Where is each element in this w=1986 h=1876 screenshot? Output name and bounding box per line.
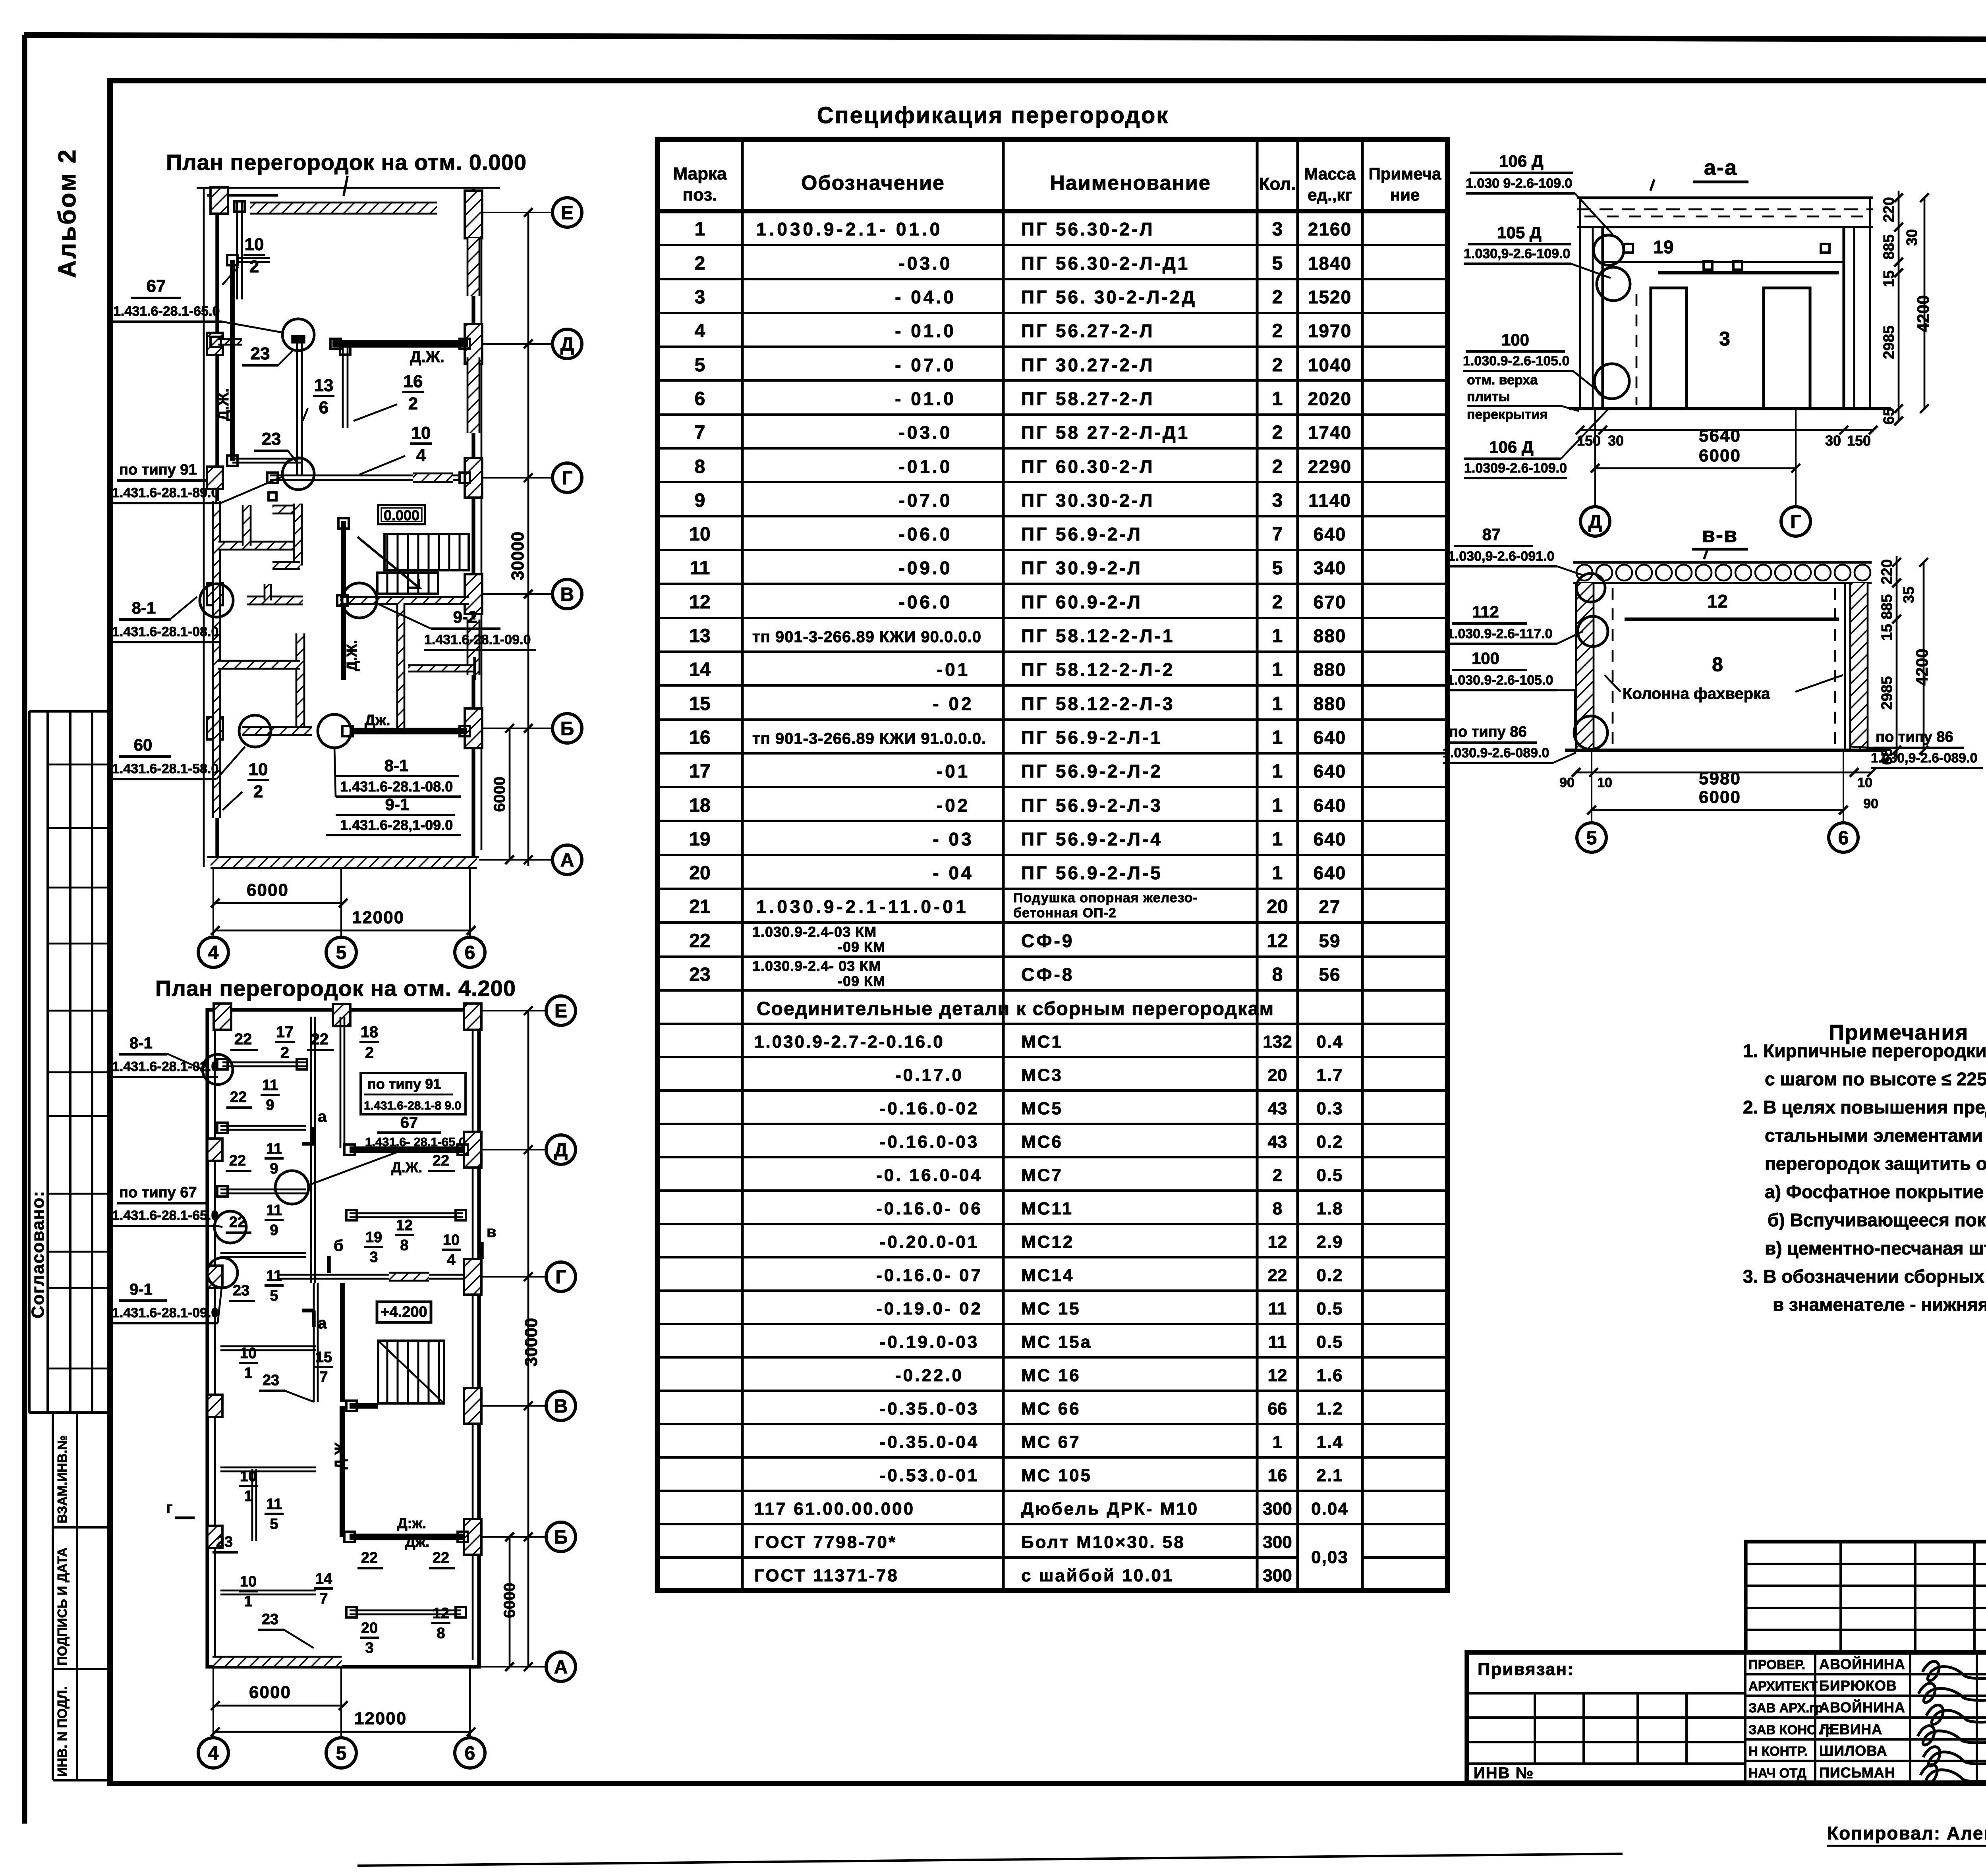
plan1 cluster jog (272, 562, 300, 569)
svg-text:плиты: плиты (1467, 389, 1510, 404)
svg-text:Подушка опорная железо-: Подушка опорная железо- (1013, 890, 1198, 905)
bottom partial line (357, 1854, 1623, 1866)
plan1 partition x603 (236, 201, 238, 299)
svg-text:1: 1 (1272, 761, 1283, 782)
plan1 cluster wall h3 (247, 596, 303, 604)
svg-text:Г: Г (1790, 511, 1801, 533)
svg-text:-06.0: -06.0 (899, 524, 952, 544)
svg-text:1.030,9-2.6-089.0: 1.030,9-2.6-089.0 (1871, 751, 1977, 766)
svg-text:В: В (554, 1396, 568, 1417)
svg-text:СФ-8: СФ-8 (1021, 964, 1074, 985)
svg-text:ПГ 56. 30-2-Л-2Д: ПГ 56. 30-2-Л-2Д (1021, 287, 1197, 307)
svg-text:1.2: 1.2 (1316, 1399, 1343, 1419)
svg-text:7: 7 (319, 1369, 328, 1386)
svg-text:20: 20 (361, 1620, 378, 1637)
svg-text:67: 67 (147, 276, 166, 296)
svg-text:по типу 86: по типу 86 (1449, 724, 1527, 740)
svg-text:9: 9 (695, 490, 705, 511)
svg-text:тп 901-3-266.89 КЖИ 91.0.0.0.: тп 901-3-266.89 КЖИ 91.0.0.0. (752, 730, 986, 747)
svg-text:ПГ 56.30-2-Л-Д1: ПГ 56.30-2-Л-Д1 (1021, 253, 1190, 274)
svg-text:1520: 1520 (1308, 287, 1352, 307)
plan2 left rooms lower (220, 1345, 316, 1347)
plan1 stair-left dark partition (341, 521, 346, 680)
plan1 right vertical dim 30000 (527, 212, 529, 866)
svg-text:9-2: 9-2 (453, 608, 477, 626)
plan2 leader circles (203, 1054, 233, 1085)
svg-text:перекрытия: перекрытия (1467, 407, 1547, 422)
svg-text:Б: Б (554, 1527, 568, 1548)
svg-text:1.431.6-28,1-09.0: 1.431.6-28,1-09.0 (340, 817, 453, 833)
svg-text:65: 65 (1881, 408, 1897, 425)
svg-text:-0.19.0- 02: -0.19.0- 02 (876, 1299, 983, 1318)
svg-text:640: 640 (1314, 795, 1347, 816)
svg-text:-0.16.0- 07: -0.16.0- 07 (876, 1266, 983, 1285)
svg-text:1: 1 (1272, 829, 1283, 850)
svg-text:ПРОВЕР.: ПРОВЕР. (1748, 1657, 1805, 1672)
svg-text:1.030.9-2.6-105.0: 1.030.9-2.6-105.0 (1447, 673, 1553, 688)
plan2 partition below D (350, 1212, 463, 1214)
svg-text:5980: 5980 (1699, 769, 1741, 788)
section a-a right wall (1842, 227, 1845, 409)
svg-text:Н КОНТР.: Н КОНТР. (1748, 1744, 1808, 1758)
svg-text:Наименование: Наименование (1050, 172, 1211, 195)
svg-text:1.030 9-2.6-109.0: 1.030 9-2.6-109.0 (1466, 176, 1572, 191)
plan1 top wall hatch strip (250, 203, 437, 214)
svg-text:МС 105: МС 105 (1021, 1466, 1092, 1485)
svg-text:ПГ 30.27-2-Л: ПГ 30.27-2-Л (1021, 355, 1155, 375)
svg-text:2.9: 2.9 (1316, 1232, 1343, 1252)
svg-text:7: 7 (1272, 524, 1283, 545)
svg-text:12: 12 (433, 1605, 449, 1622)
svg-text:1.8: 1.8 (1316, 1199, 1343, 1218)
plan1 bottom dim 12000 (215, 930, 471, 932)
svg-text:15: 15 (315, 1349, 332, 1366)
svg-text:-0.19.0-03: -0.19.0-03 (880, 1332, 979, 1352)
svg-text:2: 2 (1272, 320, 1283, 342)
svg-text:Дж.: Дж. (405, 1534, 429, 1550)
section a-a inner top line (1658, 271, 1839, 274)
plan1 corridor wall below stair hatched (397, 603, 404, 731)
svg-text:100: 100 (1472, 649, 1499, 668)
svg-text:МС 15: МС 15 (1021, 1299, 1081, 1318)
svg-text:2: 2 (1272, 287, 1283, 308)
svg-text:300: 300 (1263, 1499, 1292, 1519)
svg-text:ПГ 56.30-2-Л: ПГ 56.30-2-Л (1021, 219, 1155, 239)
section a-a axis circles (1594, 409, 1596, 507)
svg-text:3: 3 (1272, 219, 1283, 240)
svg-text:12: 12 (396, 1217, 413, 1234)
svg-text:6000: 6000 (491, 777, 508, 812)
svg-text:23: 23 (233, 1282, 249, 1299)
svg-text:-09 КМ: -09 КМ (838, 939, 885, 955)
plan1 right wall (471, 189, 475, 867)
svg-text:5: 5 (695, 355, 705, 376)
svg-text:отм. верха: отм. верха (1467, 372, 1538, 388)
svg-text:3: 3 (1272, 490, 1283, 511)
svg-text:ПГ 56.27-2-Л: ПГ 56.27-2-Л (1021, 320, 1155, 341)
svg-text:0.5: 0.5 (1316, 1166, 1343, 1185)
svg-text:Колонна фахверка: Колонна фахверка (1623, 685, 1770, 703)
svg-text:МС3: МС3 (1021, 1065, 1063, 1085)
svg-text:в: в (487, 1223, 496, 1241)
svg-text:1740: 1740 (1308, 422, 1352, 443)
inventory margin table (52, 1413, 54, 1780)
svg-text:5: 5 (1586, 828, 1597, 849)
svg-text:0.4: 0.4 (1316, 1032, 1343, 1052)
plan2 vertical partition x795 mid (313, 1283, 315, 1402)
svg-text:-0.22.0: -0.22.0 (895, 1366, 964, 1385)
spec table column lines (741, 139, 744, 1590)
svg-text:Масса: Масса (1304, 164, 1356, 183)
svg-text:0.5: 0.5 (1316, 1332, 1343, 1352)
svg-text:5: 5 (270, 1516, 278, 1532)
svg-text:340: 340 (1314, 558, 1347, 578)
svg-text:1.431.6-28.1-09.0: 1.431.6-28.1-09.0 (424, 632, 531, 647)
plan2 vertical corridor wall left (310, 1017, 312, 1283)
svg-text:11: 11 (266, 1496, 282, 1513)
svg-text:-0. 16.0-04: -0. 16.0-04 (876, 1166, 983, 1185)
sheet outer border top (24, 35, 1986, 41)
svg-text:с шайбой 10.01: с шайбой 10.01 (1021, 1566, 1174, 1585)
svg-text:План перегородок на отм. 4.200: План перегородок на отм. 4.200 (155, 976, 516, 1001)
svg-text:885: 885 (1881, 234, 1897, 259)
svg-text:-0.16.0- 06: -0.16.0- 06 (876, 1199, 983, 1218)
svg-text:Д.Ж.: Д.Ж. (215, 388, 232, 421)
svg-text:2: 2 (1273, 1166, 1282, 1185)
plan2 partition mid x860 (340, 1017, 342, 1148)
plan2 axis row lines (479, 1010, 546, 1011)
plan1 cluster wall h5 at B row (242, 727, 312, 735)
svg-text:БИРЮКОВ: БИРЮКОВ (1819, 1677, 1897, 1694)
svg-text:10: 10 (249, 760, 268, 779)
section v-v axis circles (1591, 750, 1592, 823)
svg-text:Е: Е (561, 203, 574, 224)
plan2 four.200 box (377, 1302, 431, 1322)
svg-text:12: 12 (1268, 1232, 1287, 1252)
approval table (28, 711, 31, 1413)
svg-text:9-1: 9-1 (385, 795, 410, 814)
signatures (1922, 1662, 1986, 1681)
plan2 row B wall dark (350, 1534, 463, 1540)
svg-text:67: 67 (400, 1114, 418, 1131)
svg-text:4200: 4200 (1914, 295, 1932, 332)
svg-text:бетонная ОП-2: бетонная ОП-2 (1013, 905, 1117, 921)
svg-text:150: 150 (1577, 432, 1601, 449)
svg-text:10: 10 (689, 524, 710, 545)
plan2 side columns (207, 1139, 222, 1161)
svg-text:в) цементно-песчаная штукатур: в) цементно-песчаная штукатурка толщиной… (1765, 1238, 1986, 1258)
svg-text:-0.35.0-04: -0.35.0-04 (880, 1432, 979, 1452)
svg-text:Марка: Марка (673, 164, 727, 183)
svg-text:8: 8 (1712, 653, 1723, 676)
svg-text:стальными элементами с 0,25 д: стальными элементами с 0,25 до 0.75 часа… (1765, 1125, 1986, 1146)
svg-text:-03.0: -03.0 (899, 422, 952, 443)
svg-text:60: 60 (134, 735, 153, 754)
svg-text:13: 13 (314, 376, 334, 395)
plan1 bottom dim 6000 (215, 902, 343, 904)
svg-text:16: 16 (689, 727, 710, 748)
svg-text:12: 12 (689, 592, 710, 613)
svg-text:ПИСЬМАН: ПИСЬМАН (1819, 1764, 1895, 1781)
svg-text:г: г (166, 1499, 173, 1517)
svg-text:1.030,9-2.6-109.0: 1.030,9-2.6-109.0 (1464, 246, 1570, 261)
svg-text:30000: 30000 (522, 1318, 541, 1366)
spec table frame (657, 139, 1447, 1590)
svg-text:Г: Г (555, 1267, 566, 1288)
svg-text:1.7: 1.7 (1316, 1065, 1343, 1085)
svg-text:8-1: 8-1 (132, 598, 156, 617)
svg-text:27: 27 (1319, 896, 1341, 917)
svg-text:6000: 6000 (1699, 787, 1741, 807)
plan1 cluster wall v1 (243, 505, 251, 546)
svg-text:66: 66 (1268, 1399, 1287, 1419)
svg-text:300: 300 (1263, 1566, 1292, 1585)
svg-text:23: 23 (216, 1534, 233, 1550)
svg-text:3. В обозначении сборных перег: 3. В обозначении сборных перегородок: в … (1743, 1266, 1986, 1287)
svg-text:59: 59 (1319, 930, 1341, 951)
section v-v bottom dims (1576, 772, 1872, 774)
svg-text:Д.Ж.: Д.Ж. (332, 1438, 348, 1469)
plan1 columns left side (207, 333, 223, 355)
section v-v leader circles (1576, 573, 1605, 602)
plan2 bottom wall hatch (213, 1657, 342, 1667)
svg-text:ИНВ №: ИНВ № (1474, 1764, 1534, 1782)
svg-text:1040: 1040 (1308, 355, 1352, 375)
svg-text:ПГ 58.12-2-Л-3: ПГ 58.12-2-Л-3 (1021, 693, 1175, 714)
svg-text:ПГ 58 27-2-Л-Д1: ПГ 58 27-2-Л-Д1 (1021, 422, 1190, 443)
plan1 D-row left stub (218, 339, 242, 345)
svg-text:0.3: 0.3 (1316, 1099, 1343, 1118)
svg-text:а-а: а-а (1704, 156, 1737, 179)
svg-text:1: 1 (1272, 388, 1283, 409)
svg-text:23: 23 (263, 1372, 279, 1389)
svg-text:- 04.0: - 04.0 (895, 287, 956, 307)
svg-text:15: 15 (689, 693, 710, 714)
svg-text:А: А (554, 1657, 568, 1678)
svg-text:1140: 1140 (1308, 490, 1351, 511)
plan1 bottom axis circles (213, 868, 214, 937)
section a-a dashed stub (1636, 294, 1638, 405)
svg-text:1: 1 (244, 1593, 252, 1610)
svg-text:ПГ 56.9-2-Л-3: ПГ 56.9-2-Л-3 (1021, 795, 1163, 816)
svg-text:Примеча: Примеча (1369, 164, 1441, 183)
svg-text:ПГ 30.9-2-Л: ПГ 30.9-2-Л (1021, 558, 1142, 578)
svg-text:Д.Ж.: Д.Ж. (410, 348, 444, 366)
svg-text:16: 16 (1268, 1466, 1287, 1485)
section a-a anchor marks (1704, 261, 1712, 270)
svg-text:22: 22 (234, 1031, 252, 1048)
svg-text:10: 10 (411, 423, 431, 443)
svg-text:Д.Ж.: Д.Ж. (391, 1159, 422, 1175)
title block upper extension table (1746, 1542, 1986, 1652)
svg-text:5: 5 (270, 1287, 278, 1304)
svg-text:3: 3 (369, 1249, 378, 1266)
svg-text:8: 8 (695, 456, 705, 477)
svg-text:885: 885 (1879, 594, 1895, 619)
plan1 cluster wall h4 (218, 661, 300, 669)
plan2 stair (378, 1341, 444, 1403)
svg-text:по типу 86: по типу 86 (1876, 729, 1953, 745)
svg-text:30: 30 (1608, 432, 1624, 449)
section v-v floor (1565, 749, 1887, 752)
svg-text:8-1: 8-1 (129, 1035, 153, 1052)
svg-text:6: 6 (319, 398, 328, 417)
svg-text:4: 4 (695, 320, 705, 342)
svg-text:1.0309-2.6-109.0: 1.0309-2.6-109.0 (1464, 461, 1567, 476)
svg-text:1.431.6-28.1-02.0: 1.431.6-28.1-02.0 (112, 1059, 218, 1074)
svg-text:7: 7 (319, 1590, 328, 1607)
svg-text:ШИЛОВА: ШИЛОВА (1819, 1743, 1887, 1759)
svg-text:ЛЕВИНА: ЛЕВИНА (1819, 1721, 1882, 1737)
svg-text:-0.20.0-01: -0.20.0-01 (880, 1232, 979, 1252)
svg-text:18: 18 (689, 795, 710, 816)
svg-text:-01: -01 (937, 659, 970, 680)
svg-text:9: 9 (270, 1222, 278, 1239)
svg-text:12: 12 (1268, 1366, 1287, 1385)
svg-text:3: 3 (1719, 328, 1730, 350)
svg-text:106 Д: 106 Д (1489, 438, 1534, 456)
svg-text:АВОЙНИНА: АВОЙНИНА (1819, 1656, 1905, 1672)
svg-text:6: 6 (1838, 828, 1849, 849)
svg-text:6000: 6000 (501, 1583, 518, 1618)
svg-text:поз.: поз. (683, 185, 717, 205)
section a-a dim 6000 (1595, 467, 1796, 469)
svg-text:22: 22 (689, 930, 710, 952)
svg-text:1: 1 (244, 1365, 252, 1382)
svg-text:1.431.6-28.1-08.0: 1.431.6-28.1-08.0 (112, 624, 218, 639)
svg-text:0.000: 0.000 (384, 507, 419, 523)
plan1 cluster wall h1 (218, 542, 303, 550)
svg-text:МС14: МС14 (1021, 1266, 1074, 1285)
plan1 top wall edge (207, 194, 278, 197)
plan1 axis row lines (479, 212, 553, 213)
svg-text:8: 8 (437, 1625, 445, 1642)
svg-text:План перегородок на отм. 0.000: План перегородок на отм. 0.000 (166, 150, 527, 175)
svg-text:ЗАВ АРХ.гр: ЗАВ АРХ.гр (1748, 1700, 1823, 1715)
svg-text:-0.16.0-02: -0.16.0-02 (880, 1099, 979, 1118)
svg-text:22: 22 (311, 1031, 329, 1048)
plan1 zero level box (378, 505, 425, 524)
svg-text:23: 23 (262, 1611, 278, 1628)
svg-text:1.030.9-2.1-11.0-01: 1.030.9-2.1-11.0-01 (756, 896, 969, 917)
plan2 bottom axis circles (213, 1668, 214, 1738)
svg-text:Д: Д (554, 1140, 568, 1161)
svg-text:1.431.6- 28.1-65.0: 1.431.6- 28.1-65.0 (365, 1135, 466, 1149)
svg-text:перегородок защитить одним из: перегородок защитить одним из указанных … (1765, 1153, 1986, 1174)
svg-text:19: 19 (365, 1229, 382, 1246)
svg-text:ПГ 58.12-2-Л-1: ПГ 58.12-2-Л-1 (1021, 625, 1175, 646)
svg-text:100: 100 (1501, 330, 1529, 349)
svg-text:1: 1 (244, 1488, 252, 1505)
svg-text:Д: Д (1588, 511, 1602, 533)
svg-text:а: а (318, 1314, 327, 1332)
svg-text:23: 23 (251, 344, 270, 363)
svg-text:тп 901-3-266.89 КЖИ 90.0.0.0: тп 901-3-266.89 КЖИ 90.0.0.0 (752, 628, 981, 646)
plan1 bottom wall (211, 857, 477, 868)
svg-text:2160: 2160 (1308, 219, 1352, 239)
svg-text:6: 6 (465, 942, 475, 963)
svg-text:-0.35.0-03: -0.35.0-03 (880, 1399, 979, 1419)
svg-text:2: 2 (280, 1044, 289, 1062)
svg-text:Согласовано:: Согласовано: (28, 1190, 48, 1318)
svg-text:10: 10 (1857, 775, 1872, 790)
svg-text:МС 66: МС 66 (1021, 1399, 1081, 1419)
svg-text:- 01.0: - 01.0 (895, 320, 956, 341)
svg-text:- 07.0: - 07.0 (895, 355, 956, 375)
svg-text:НАЧ ОТД: НАЧ ОТД (1748, 1766, 1806, 1780)
svg-text:ед.,кг: ед.,кг (1308, 185, 1352, 204)
plan1 partition left DZh (230, 260, 235, 461)
svg-text:43: 43 (1268, 1132, 1287, 1152)
svg-text:2290: 2290 (1308, 456, 1352, 477)
svg-text:Б: Б (560, 718, 574, 739)
svg-text:6000: 6000 (1699, 446, 1741, 465)
svg-text:10: 10 (240, 1468, 257, 1485)
plan2 left rooms walls (222, 1062, 306, 1063)
svg-text:-0.53.0-01: -0.53.0-01 (880, 1466, 979, 1485)
svg-text:в-в: в-в (1702, 523, 1738, 547)
plan1 top-right column (465, 191, 482, 238)
svg-text:6: 6 (465, 1743, 475, 1764)
svg-text:ВЗАМ.ИНВ.№: ВЗАМ.ИНВ.№ (55, 1435, 70, 1523)
plan2 row D dark wall (350, 1146, 463, 1153)
svg-text:2: 2 (1272, 422, 1283, 443)
svg-text:1: 1 (1272, 625, 1283, 647)
section v-v left wall hatched (1576, 583, 1594, 750)
svg-text:Дж.: Дж. (365, 712, 390, 729)
svg-text:3: 3 (365, 1640, 373, 1656)
svg-text:-03.0: -03.0 (899, 253, 952, 274)
section v-v right wall hatched (1850, 583, 1868, 750)
svg-text:1970: 1970 (1308, 320, 1352, 341)
plan1 leader circle 8-1 (200, 584, 233, 617)
svg-text:11: 11 (266, 1141, 282, 1157)
svg-text:-09.0: -09.0 (899, 558, 952, 578)
svg-text:15: 15 (1879, 624, 1895, 641)
svg-text:6000: 6000 (247, 880, 289, 900)
svg-text:1: 1 (695, 219, 705, 240)
svg-text:0.5: 0.5 (1316, 1299, 1343, 1318)
plan1 wall row V hatched (340, 597, 469, 604)
svg-text:ПГ 58.12-2-Л-2: ПГ 58.12-2-Л-2 (1021, 659, 1175, 680)
svg-text:10: 10 (443, 1232, 460, 1249)
svg-text:10: 10 (240, 1573, 257, 1590)
plan1 left stub wall (238, 257, 270, 259)
plan1 wall row B thick (350, 728, 467, 735)
svg-text:87: 87 (1482, 525, 1501, 544)
svg-text:МС 67: МС 67 (1021, 1432, 1081, 1452)
title block main frame (1467, 1652, 1986, 1783)
plan2 vertical dzh dark (340, 1283, 345, 1402)
svg-text:1.030.9-2.7-2-0.16.0: 1.030.9-2.7-2-0.16.0 (754, 1032, 945, 1052)
svg-text:ГОСТ 11371-78: ГОСТ 11371-78 (754, 1566, 899, 1585)
svg-text:Г: Г (562, 468, 572, 489)
plan2 top wall columns (214, 1004, 231, 1030)
svg-text:-09 КМ: -09 КМ (838, 973, 885, 989)
svg-text:4: 4 (447, 1252, 455, 1268)
svg-text:2985: 2985 (1881, 326, 1897, 359)
svg-text:Дюбель ДРК- М10: Дюбель ДРК- М10 (1021, 1499, 1199, 1519)
plan1 top-left column (211, 187, 228, 214)
svg-text:10: 10 (245, 235, 264, 254)
svg-text:19: 19 (689, 829, 710, 850)
svg-text:МС11: МС11 (1021, 1199, 1073, 1218)
svg-text:1.4: 1.4 (1316, 1432, 1343, 1452)
svg-text:1.431.6-28.1-08.0: 1.431.6-28.1-08.0 (340, 778, 453, 795)
plan1 partition x754 (296, 336, 298, 475)
svg-text:300: 300 (1263, 1532, 1292, 1552)
svg-text:640: 640 (1314, 761, 1347, 782)
